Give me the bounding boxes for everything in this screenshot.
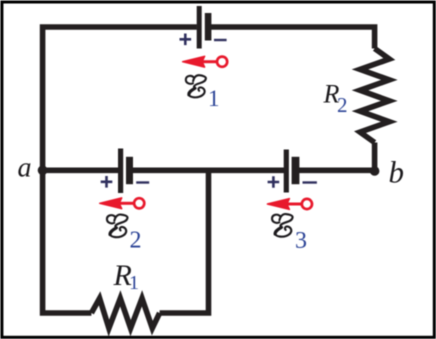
svg-text:1: 1 — [208, 86, 220, 111]
svg-text:2: 2 — [130, 228, 142, 254]
svg-text:1: 1 — [129, 272, 139, 294]
svg-text:a: a — [18, 153, 32, 184]
svg-text:3: 3 — [295, 228, 307, 254]
svg-text:2: 2 — [337, 93, 348, 117]
svg-text:b: b — [389, 155, 405, 190]
